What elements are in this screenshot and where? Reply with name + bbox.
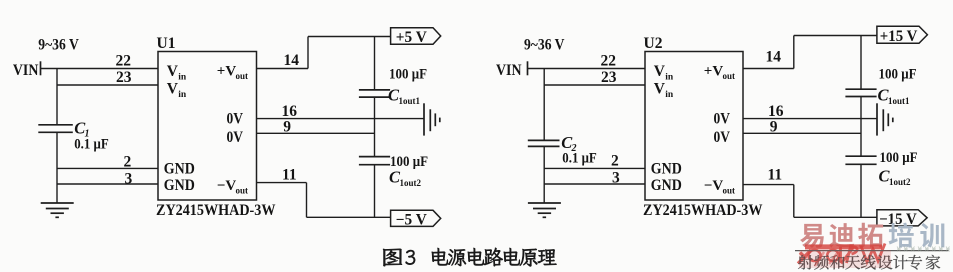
svg-text:11: 11 [768, 166, 783, 183]
wire junction vertical (input rail) [56, 69, 58, 125]
svg-text:−15 V: −15 V [879, 211, 917, 228]
wire output cap rail (vertical) [860, 36, 862, 89]
svg-text:in: in [665, 90, 674, 100]
wire vertical up from pin 14 [793, 36, 795, 69]
wire bottom rail to −15 V flag [794, 216, 877, 218]
svg-text:0V: 0V [227, 129, 244, 146]
wire +Vout pin 14 [257, 68, 309, 70]
wire cap rail to bottom [374, 165, 376, 218]
svg-text:0.1 μF: 0.1 μF [562, 151, 597, 167]
ground (input side U2) [528, 202, 561, 204]
wire to Vin pin 23 [544, 84, 645, 86]
svg-text:in: in [178, 73, 187, 83]
svg-text:100 μF: 100 μF [389, 66, 427, 82]
watermark red tint over slogan [799, 250, 891, 268]
svg-text:GND: GND [651, 161, 682, 178]
svg-text:out: out [723, 71, 736, 81]
wire vertical down from pin 11 [306, 183, 308, 218]
svg-text:14: 14 [766, 49, 782, 66]
svg-text:V: V [167, 81, 179, 98]
svg-text:100 μF: 100 μF [879, 66, 917, 82]
wire top rail to +15 V flag [794, 35, 877, 37]
wire bottom rail to −5 V flag [307, 216, 391, 218]
svg-text:1out2: 1out2 [889, 177, 911, 187]
wire to GND pin 3 [544, 183, 645, 185]
DC-DC converter U1 ZY2415WHAD-3W (body) [158, 52, 257, 201]
wire top rail to +5 V flag [308, 36, 391, 38]
wire 0V pin 9 to cap rail [257, 132, 375, 134]
svg-text:out: out [236, 71, 249, 81]
svg-text:GND: GND [164, 161, 195, 178]
capacitor C1 [38, 124, 73, 126]
watermark thin rule [795, 250, 949, 252]
ground (output side U2) [876, 103, 878, 135]
svg-text:23: 23 [116, 69, 132, 86]
VIN terminal tick [40, 61, 42, 75]
svg-text:−V: −V [217, 178, 237, 194]
svg-text:+15 V: +15 V [880, 28, 918, 45]
svg-text:0V: 0V [227, 111, 244, 128]
wire junction vertical (input rail) [543, 69, 545, 141]
output flag +15 V [877, 26, 928, 43]
svg-text:GND: GND [651, 177, 682, 194]
svg-text:11: 11 [282, 166, 297, 183]
capacitor C1out2 (100 uF) [359, 156, 390, 158]
svg-text:+V: +V [704, 64, 724, 80]
wire output cap rail (vertical) [374, 37, 376, 90]
svg-text:VIN: VIN [13, 62, 39, 79]
svg-text:GND: GND [164, 177, 195, 194]
svg-text:9: 9 [770, 118, 778, 135]
svg-text:1out1: 1out1 [888, 96, 910, 106]
wire to GND pin 2 [57, 167, 158, 169]
svg-text:14: 14 [284, 52, 300, 69]
svg-text:V: V [167, 63, 179, 80]
svg-text:+5 V: +5 V [396, 29, 428, 46]
svg-text:9: 9 [283, 118, 291, 135]
svg-text:22: 22 [116, 53, 132, 70]
svg-text:3: 3 [125, 171, 133, 188]
wire between output caps [374, 97, 376, 157]
svg-text:2: 2 [611, 153, 619, 170]
svg-text:U2: U2 [644, 35, 663, 52]
wire 0V pin 16 to ground [743, 118, 877, 120]
VIN terminal tick [527, 61, 529, 75]
capacitor C2 [528, 139, 560, 141]
svg-text:3: 3 [612, 170, 620, 187]
capacitor C1out1 (100 uF) [845, 88, 876, 90]
wire +Vout pin 14 [743, 68, 794, 70]
output flag −15 V [877, 210, 927, 226]
svg-text:ZY2415WHAD-3W: ZY2415WHAD-3W [643, 202, 763, 219]
svg-text:in: in [178, 90, 187, 100]
wire to Vin pin 23 [57, 84, 158, 86]
ground (input side U1) [41, 202, 74, 204]
wire VIN to Vin pin 22 [528, 68, 645, 70]
svg-text:−5 V: −5 V [396, 211, 428, 228]
watermark tiny slogan marks [897, 247, 950, 252]
wire 0V pin 9 to cap rail [743, 132, 861, 134]
wire VIN to Vin pin 22 [41, 68, 158, 70]
svg-text:1out2: 1out2 [400, 178, 422, 188]
DC-DC converter U2 ZY2415WHAD-3W (body) [645, 52, 743, 201]
svg-text:V: V [654, 81, 666, 98]
capacitor C1out2 (100 uF) [845, 155, 876, 157]
capacitor C1out1 (100 uF) [359, 89, 390, 91]
svg-text:23: 23 [601, 69, 617, 86]
svg-text:9~36 V: 9~36 V [38, 36, 79, 53]
svg-text:100 μF: 100 μF [880, 150, 918, 166]
wire to GND pin 2 [544, 167, 645, 169]
svg-text:out: out [723, 185, 736, 195]
wire -Vout pin 11 [257, 182, 307, 184]
caption: figure title 图3 电源电路电原理 [383, 249, 402, 266]
output flag +5 V [391, 28, 441, 45]
svg-text:V: V [654, 63, 666, 80]
output flag −5 V [391, 210, 441, 226]
wire cap rail to bottom [860, 164, 862, 217]
svg-text:0.1 μF: 0.1 μF [74, 136, 109, 152]
svg-text:in: in [665, 73, 674, 83]
wire to GND pin 3 [57, 183, 158, 185]
svg-text:VIN: VIN [496, 62, 522, 79]
watermark logo 易迪拓培训 [800, 224, 824, 248]
svg-text:2: 2 [124, 154, 132, 171]
wire 0V pin 16 to ground [257, 118, 425, 120]
ground (output side U1) [423, 103, 425, 135]
svg-text:1out1: 1out1 [399, 96, 421, 106]
svg-text:22: 22 [601, 53, 617, 70]
wire vertical down from pin 11 [793, 185, 795, 218]
svg-text:−V: −V [704, 178, 724, 194]
svg-text:0V: 0V [714, 129, 731, 146]
watermark red descender strokes [815, 252, 838, 266]
svg-text:+V: +V [217, 64, 237, 80]
wire -Vout pin 11 [743, 184, 794, 186]
wire between output caps [860, 97, 862, 157]
watermark red script overlay [798, 244, 885, 264]
watermark text 射频和天线设计专家 [798, 255, 813, 269]
svg-text:9~36 V: 9~36 V [524, 36, 565, 53]
svg-text:U1: U1 [157, 35, 176, 52]
wire vertical up from pin 14 [307, 37, 309, 69]
svg-text:0V: 0V [714, 111, 731, 128]
svg-text:ZY2415WHAD-3W: ZY2415WHAD-3W [156, 202, 276, 219]
svg-text:out: out [236, 185, 249, 195]
